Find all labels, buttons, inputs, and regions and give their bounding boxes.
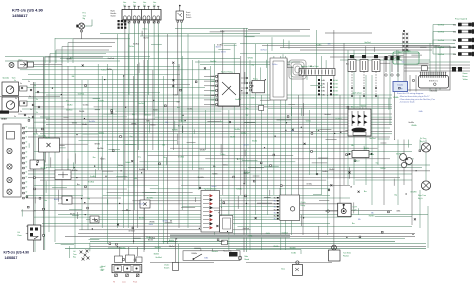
svg-text:Blu: Blu [274,219,276,221]
svg-text:Ignition Control Unit: Ignition Control Unit [301,65,319,68]
svg-text:BluYel: BluYel [333,80,338,82]
svg-text:GrnRed: GrnRed [438,32,444,34]
svg-text:Flasher: Flasher [343,255,349,257]
svg-text:GrnBlu: GrnBlu [217,44,223,46]
svg-text:WhtBk: WhtBk [393,96,398,99]
svg-text:Brn: Brn [246,108,249,110]
svg-text:BluYel: BluYel [33,134,39,136]
svg-text:YelGrn: YelGrn [72,122,77,124]
svg-text:BluYel: BluYel [70,214,76,216]
svg-text:Blu: Blu [274,207,276,209]
svg-text:YelGrn: YelGrn [153,110,158,112]
svg-text:GrnRed: GrnRed [438,25,444,27]
svg-text:Clutch: Clutch [301,201,306,204]
svg-text:YelGrn: YelGrn [173,95,178,97]
svg-text:GrnRed: GrnRed [88,182,94,184]
svg-text:GrBk: GrBk [251,98,255,100]
svg-text:YelGrn: YelGrn [361,106,366,108]
svg-text:Brn: Brn [352,223,355,225]
svg-text:GrnBlu: GrnBlu [162,221,168,223]
svg-text:Neutral Sw: Neutral Sw [224,250,233,253]
svg-text:GrBk: GrBk [211,99,215,102]
svg-text:Oil Pr: Oil Pr [353,207,358,209]
svg-text:Brn: Brn [346,64,349,66]
svg-text:From this XX wiring diagram:: From this XX wiring diagram: [397,92,424,95]
svg-text:BluYel: BluYel [169,246,175,248]
svg-text:Brn: Brn [399,52,402,54]
svg-text:Plug: Plug [398,88,403,90]
svg-text:WhtBk: WhtBk [82,123,87,126]
svg-text:Blk: Blk [351,145,354,147]
svg-text:Blu: Blu [274,201,276,203]
svg-text:GrnBlu: GrnBlu [235,99,241,101]
svg-text:Rear Turn: Rear Turn [418,195,426,197]
svg-text:- hot injector leads: - hot injector leads [399,101,415,104]
svg-text:BluYel: BluYel [139,217,145,219]
svg-text:RdWht: RdWht [192,252,198,255]
svg-text:Grn: Grn [143,1,146,4]
svg-text:Blu: Blu [274,198,276,200]
svg-text:Blk: Blk [72,76,75,78]
svg-text:Side: Side [244,256,248,258]
svg-text:Switch: Switch [186,16,191,19]
svg-text:GrBk: GrBk [204,257,208,259]
svg-text:YelGrn: YelGrn [223,164,228,166]
svg-text:YelGrn: YelGrn [101,70,106,72]
svg-text:BrnWht: BrnWht [172,128,178,131]
svg-text:GrnRed: GrnRed [40,167,46,169]
svg-text:Diode: Diode [397,85,403,87]
svg-text:Blk: Blk [351,55,354,57]
svg-text:GrBk: GrBk [321,83,325,86]
svg-text:Yellow: Yellow [463,79,469,81]
svg-text:GrBk: GrBk [321,86,325,89]
svg-text:RdWht: RdWht [212,173,218,176]
svg-text:BrnWht: BrnWht [139,168,145,171]
svg-text:YelGrn: YelGrn [150,125,155,127]
svg-text:GrnBlu: GrnBlu [316,45,322,47]
svg-text:BluYel: BluYel [148,240,154,242]
svg-text:Brn: Brn [364,191,367,193]
svg-text:Brn: Brn [44,200,47,202]
svg-text:GrnBlu: GrnBlu [322,171,328,173]
svg-text:GrBk: GrBk [211,75,215,78]
svg-text:Brown: Brown [463,76,468,78]
svg-text:Gry: Gry [177,102,180,104]
svg-text:GrBk: GrBk [211,103,215,106]
svg-text:Turn: Turn [73,254,77,256]
svg-text:Brn: Brn [177,107,180,109]
svg-text:GrBk: GrBk [321,93,325,96]
svg-text:GrnBlu: GrnBlu [120,247,126,249]
svg-text:Frnt: Frnt [83,12,87,15]
svg-text:1458817: 1458817 [5,256,18,260]
svg-text:Blu: Blu [274,216,276,218]
svg-text:1458817: 1458817 [12,13,28,18]
svg-text:GrnBlu: GrnBlu [66,58,72,60]
svg-text:BluYel: BluYel [333,87,338,89]
svg-text:Speedo: Speedo [3,78,10,80]
svg-text:Blu: Blu [274,210,276,212]
svg-text:GrnBk: GrnBk [291,252,296,255]
svg-text:Brn: Brn [316,129,319,131]
svg-text:GEAR: GEAR [1,118,7,121]
svg-text:GrBk: GrBk [321,90,325,93]
svg-text:Starter Relay: Starter Relay [221,71,233,74]
svg-text:BluYel: BluYel [333,84,338,86]
svg-text:GrnRed: GrnRed [243,228,249,230]
svg-text:BluYel: BluYel [144,38,150,40]
svg-text:Sig Lt: Sig Lt [418,197,423,200]
svg-text:GrBk: GrBk [149,224,153,226]
svg-text:GrBk: GrBk [396,210,400,212]
svg-text:RdWht: RdWht [72,169,78,172]
svg-text:BluRd: BluRd [154,253,159,255]
svg-text:GrBk: GrBk [248,236,252,238]
svg-text:Blk: Blk [358,219,361,221]
svg-text:RdWht: RdWht [107,68,113,71]
svg-text:Light: Light [353,208,357,211]
svg-text:Blk: Blk [213,166,216,168]
svg-text:WhtBk: WhtBk [149,220,154,223]
svg-text:GrnBlu: GrnBlu [90,176,96,178]
svg-text:GrBk: GrBk [266,233,270,235]
svg-text:BrnWht: BrnWht [89,120,95,123]
svg-text:Park: Park [133,282,137,284]
svg-text:RdWht: RdWht [125,161,131,164]
svg-text:YelGrn: YelGrn [198,169,203,171]
svg-text:BluRd: BluRd [329,169,334,171]
svg-text:GrnBlu: GrnBlu [241,133,247,135]
svg-text:GrBk: GrBk [146,121,150,123]
svg-text:Relay: Relay [253,79,258,81]
svg-text:GrnRed: GrnRed [128,231,134,233]
svg-text:GrnRed: GrnRed [178,156,184,158]
svg-text:Low: Low [122,282,126,284]
svg-text:Blk: Blk [371,213,374,215]
svg-text:Brn: Brn [93,157,96,159]
svg-text:Gry: Gry [376,162,379,164]
svg-text:YelGrn: YelGrn [220,154,225,156]
svg-text:BrnWht: BrnWht [396,153,402,156]
svg-text:BrnWht: BrnWht [97,147,103,150]
svg-text:BrnWht: BrnWht [198,176,204,179]
svg-text:BluYel: BluYel [244,173,250,175]
svg-text:B M W I C U: B M W I C U [429,80,439,82]
svg-text:GrnRed: GrnRed [237,159,243,161]
svg-text:GrnRed: GrnRed [438,40,444,42]
svg-text:WhtBk: WhtBk [95,142,100,145]
svg-text:YelGrn: YelGrn [211,186,216,188]
svg-text:BrnWht: BrnWht [392,57,398,60]
svg-text:GrnBlu: GrnBlu [405,50,411,52]
svg-text:Turn: Turn [83,15,87,17]
svg-text:YelGrn: YelGrn [129,46,134,48]
svg-text:Brn: Brn [163,157,166,159]
svg-text:YelGrn: YelGrn [142,29,147,31]
svg-text:BrnWht: BrnWht [290,247,296,250]
svg-text:YelGrn: YelGrn [99,133,104,135]
svg-text:BrnWht: BrnWht [411,191,417,194]
svg-text:BrnWht: BrnWht [98,100,104,103]
svg-text:spark plugs: spark plugs [352,92,362,95]
svg-text:Gry: Gry [251,65,254,67]
svg-text:GrnRed: GrnRed [155,257,161,259]
svg-text:GrnRed: GrnRed [144,115,150,117]
svg-text:Gear: Gear [281,269,285,271]
svg-text:RdWht: RdWht [369,215,375,218]
svg-text:Gry: Gry [138,157,141,159]
svg-text:GrnRed: GrnRed [178,121,184,123]
svg-text:BrnWht: BrnWht [155,246,161,249]
svg-text:GrBk: GrBk [321,79,325,82]
svg-text:K75 c/s (US 4.90: K75 c/s (US 4.90 [4,251,30,255]
svg-text:Switch: Switch [164,266,169,269]
svg-text:WhtBk: WhtBk [273,245,278,248]
svg-text:YelGrn: YelGrn [380,168,385,170]
svg-text:BluYel: BluYel [333,91,338,93]
svg-text:YelGrn: YelGrn [306,120,311,122]
svg-text:YelGrn: YelGrn [118,165,123,167]
svg-text:BluRd: BluRd [230,136,235,138]
svg-text:WhtBk: WhtBk [131,122,136,125]
svg-text:BluYel: BluYel [139,204,145,206]
svg-text:GrnBlu: GrnBlu [306,184,312,186]
svg-text:BrnWht: BrnWht [147,196,153,199]
svg-text:GrBk: GrBk [211,89,215,92]
svg-text:Gry: Gry [245,115,248,117]
svg-text:Brn: Brn [178,126,181,128]
svg-text:Motronic: Motronic [431,89,438,92]
svg-text:BluYel: BluYel [333,94,338,96]
svg-text:GrBk: GrBk [211,80,215,83]
svg-text:light: light [101,268,105,271]
svg-text:GrnRed: GrnRed [78,94,84,96]
svg-text:BluRd: BluRd [67,104,72,106]
svg-text:Sig: Sig [73,257,76,259]
svg-text:Blk: Blk [163,145,166,147]
svg-text:BrnWht: BrnWht [210,60,216,63]
svg-text:BluRd: BluRd [146,237,151,239]
svg-text:GrnRed: GrnRed [260,50,266,52]
svg-text:GrnBlu: GrnBlu [83,105,89,107]
svg-text:Brn: Brn [77,184,80,186]
svg-text:Blk: Blk [132,114,135,116]
svg-text:Fuse legend: Fuse legend [455,19,468,21]
svg-text:YelGrn: YelGrn [272,64,277,66]
svg-text:Grn: Grn [153,1,156,4]
svg-text:GrnRed: GrnRed [324,114,330,116]
svg-text:BluRd: BluRd [169,240,174,242]
svg-text:Choke: Choke [164,265,169,267]
svg-text:GrnRed: GrnRed [282,232,288,234]
svg-text:GrnRed: GrnRed [108,58,114,60]
svg-text:Blk: Blk [134,178,137,180]
svg-text:Blk: Blk [165,122,168,124]
svg-text:BrnWht: BrnWht [212,250,218,253]
svg-text:WhtBk: WhtBk [200,149,205,152]
svg-text:Gry: Gry [402,61,405,63]
svg-text:WhtBk: WhtBk [79,110,84,113]
svg-text:BluRd: BluRd [364,148,369,150]
svg-text:GrBk: GrBk [211,94,215,97]
svg-text:Sig: Sig [83,18,86,20]
svg-text:Stand: Stand [244,258,249,261]
svg-text:GrnRed: GrnRed [138,103,144,105]
svg-text:Grn: Grn [123,1,126,4]
svg-text:Horn: Horn [19,60,23,62]
svg-text:- Clear whats plug pin to the: - Clear whats plug pin to the Red Grn j … [399,98,435,101]
svg-text:K75 c/s (US 4.90: K75 c/s (US 4.90 [12,8,44,13]
svg-text:Frt Turn: Frt Turn [420,137,426,140]
svg-text:GrnRed: GrnRed [438,54,444,56]
svg-text:GrnBlu: GrnBlu [234,129,240,131]
svg-text:Brn: Brn [328,44,331,46]
svg-text:GrnRed: GrnRed [364,42,370,44]
svg-text:Brn: Brn [291,131,294,133]
svg-text:BluYel: BluYel [216,46,222,48]
svg-text:BluYel: BluYel [244,144,250,146]
svg-text:BluYel: BluYel [221,52,227,54]
svg-text:Turn Brite: Turn Brite [343,252,351,255]
svg-text:Relay: Relay [301,205,306,207]
svg-text:Sig Lt: Sig Lt [420,140,425,143]
svg-text:BluRd: BluRd [54,199,59,201]
svg-text:BluRd: BluRd [252,141,257,143]
svg-text:Alternator: Alternator [351,106,360,109]
svg-text:GrnBlu: GrnBlu [187,109,193,111]
svg-text:Green: Green [463,73,468,75]
svg-text:GrnRed: GrnRed [66,110,72,112]
svg-text:Brn: Brn [220,121,223,123]
svg-text:Grn: Grn [133,1,136,4]
svg-text:Switch: Switch [111,14,116,17]
svg-text:Blu: Blu [274,204,276,206]
svg-text:Gry: Gry [87,198,90,200]
svg-text:WhtBk: WhtBk [411,124,416,127]
svg-text:GrBk: GrBk [211,85,215,88]
svg-text:Gry: Gry [66,100,69,102]
svg-text:Rear: Rear [18,234,22,237]
svg-text:Gry: Gry [130,136,133,138]
svg-text:GrBk: GrBk [419,111,423,113]
svg-text:Blu: Blu [274,213,276,215]
svg-text:GrnBlu: GrnBlu [369,154,375,156]
svg-text:Head: Head [101,266,105,268]
svg-text:YelGrn: YelGrn [100,159,105,161]
svg-text:BluRd: BluRd [45,138,50,140]
svg-text:WhtBk: WhtBk [248,57,253,60]
svg-text:GrnRed: GrnRed [438,47,444,49]
svg-text:RdWht: RdWht [236,187,242,190]
svg-text:Ballast: Ballast [354,160,360,163]
svg-text:- Blue text from whole plug to: - Blue text from whole plug to Pin 17 [399,95,429,98]
svg-text:GrnBlu: GrnBlu [219,241,225,243]
svg-text:Gry: Gry [394,195,397,197]
svg-text:GrnRed: GrnRed [369,138,375,140]
svg-text:GrnRed: GrnRed [335,119,341,121]
